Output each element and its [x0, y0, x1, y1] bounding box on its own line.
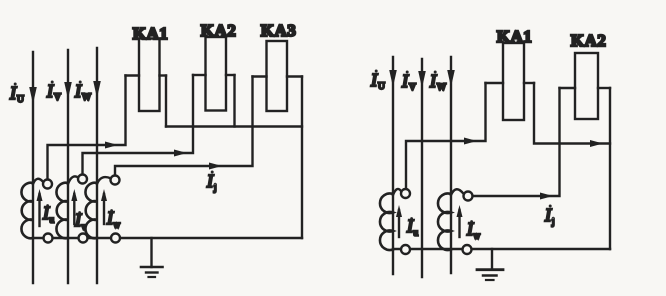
secondary arrow i_v (left): [71, 189, 77, 224]
secondary arrow i_u (left): [37, 189, 43, 226]
label i_w (right): [466, 219, 481, 241]
svg-text:Ij: Ij: [544, 205, 555, 227]
wire CT-u top to KA1 (right): [406, 83, 486, 189]
phase line W (left): [96, 48, 98, 283]
label I_W (left): [74, 81, 91, 104]
wire CT-v top to KA2 (left): [83, 75, 194, 175]
return wire (right): [609, 88, 611, 249]
label I_W (right): [429, 71, 446, 94]
svg-text:KA1: KA1: [497, 27, 533, 46]
terminal circle CT-w bottom (right): [463, 245, 472, 254]
label I_j (left): [206, 171, 217, 193]
terminal circle CT-w top (right): [464, 192, 473, 201]
terminal circle CT-u bottom (right): [401, 245, 410, 254]
label i_u (right): [406, 216, 419, 238]
terminal circle CT-u bottom (left): [44, 234, 53, 243]
CT winding TAu (left): [21, 179, 43, 238]
svg-text:KA2: KA2: [201, 21, 237, 40]
label I_V (left): [46, 81, 61, 104]
arrow on phase U (left): [29, 87, 37, 104]
svg-text:IU: IU: [9, 83, 24, 105]
arrow on phase U (right): [389, 70, 397, 87]
phase line W (right): [450, 57, 452, 273]
relay coil KA2 (left): [193, 37, 235, 111]
return wire (left): [301, 77, 303, 239]
arrow on phase V (left): [64, 82, 72, 99]
phase line U (left): [32, 52, 34, 283]
terminal circle CT-v bottom (left): [79, 234, 88, 243]
label I_V (right): [401, 71, 416, 94]
wire KA1 to return junction (right): [534, 83, 610, 147]
CT winding TAw (left): [85, 177, 110, 238]
terminal circle CT-v top (left): [78, 175, 87, 184]
phase line U (right): [392, 57, 394, 274]
wire CT-w top to KA2, current I_j (right): [472, 88, 559, 200]
label I_U (right): [370, 70, 385, 93]
secondary arrow i_w (right): [457, 205, 463, 237]
neutral bus (left): [166, 125, 302, 127]
svg-text:IV: IV: [401, 71, 416, 93]
relay coil KA3 (left): [253, 41, 303, 111]
ground (left): [141, 238, 163, 277]
wire KA1 to neutral bus (left): [165, 76, 167, 127]
arrow on phase W (left): [93, 81, 101, 98]
svg-text:IU: IU: [370, 70, 385, 92]
CT winding TAw (right): [438, 189, 464, 250]
arrow on phase W (right): [447, 70, 455, 87]
CT winding TAv (left): [56, 176, 78, 238]
svg-text:Ij: Ij: [206, 171, 217, 193]
relay coil KA1 (right): [486, 43, 535, 120]
terminal circle CT-u top (left): [43, 180, 52, 189]
label i_u (left): [42, 203, 55, 225]
phase line V (left): [67, 50, 69, 283]
svg-text:KA3: KA3: [261, 21, 297, 40]
svg-text:Iw: Iw: [466, 219, 481, 241]
arrow on phase V (right): [418, 71, 426, 88]
label i_v (left): [74, 210, 87, 232]
svg-text:IW: IW: [74, 81, 91, 103]
terminal circle CT-w bottom (left): [111, 234, 120, 243]
wire CT-u top to KA1 (left): [48, 76, 126, 180]
terminal circle CT-u top (right): [401, 189, 410, 198]
svg-text:Iw: Iw: [106, 208, 121, 230]
svg-text:KA2: KA2: [571, 31, 607, 50]
svg-text:IV: IV: [46, 81, 61, 103]
label I_j (right): [544, 205, 555, 227]
wire KA2 to neutral bus (left): [233, 75, 235, 127]
bottom bus (right): [393, 248, 610, 250]
phase line V (right): [421, 59, 423, 277]
wire CT-w top to KA3, current I_j (left): [115, 77, 253, 176]
label i_w (left): [106, 208, 121, 230]
bottom bus (left): [33, 237, 302, 239]
secondary arrow i_u (right): [396, 205, 402, 237]
relay coil KA2 (right): [560, 53, 611, 119]
ground (right): [477, 249, 503, 280]
relay coil KA1 (left): [126, 39, 167, 112]
secondary arrow i_w (left): [101, 189, 107, 224]
CT winding TAu (right): [380, 189, 401, 250]
svg-text:IW: IW: [429, 71, 446, 93]
terminal circle CT-w top (left): [111, 176, 120, 185]
label I_U (left): [9, 83, 24, 106]
svg-text:KA1: KA1: [133, 24, 169, 43]
